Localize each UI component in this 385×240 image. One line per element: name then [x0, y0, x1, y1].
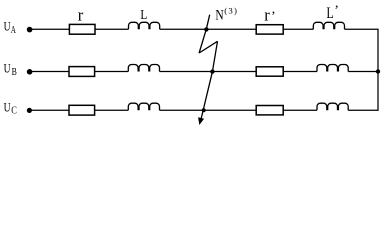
svg-text:r: r [264, 5, 270, 24]
resistor r' (phase A) [256, 25, 283, 34]
label U_C [4, 100, 17, 116]
node fault dot phase B [210, 69, 214, 73]
wire C4 [283, 109, 317, 111]
resistor r' (phase B) [256, 67, 283, 76]
svg-text:r: r [78, 5, 84, 24]
wire B2 [95, 71, 129, 73]
resistor r (phase A) [69, 24, 95, 34]
inductor L' (phase C) [317, 103, 348, 110]
wire B1 [30, 71, 69, 73]
label U_B [4, 62, 17, 79]
wire B4 [283, 71, 317, 73]
node fault dot phase A [204, 27, 208, 31]
wire A2 [95, 28, 129, 30]
terminal dot U_A [27, 27, 33, 33]
resistor r (phase C) [69, 105, 95, 115]
svg-text:U: U [4, 100, 11, 114]
inductor L' (phase B) [317, 65, 348, 72]
inductor L' (phase A) [313, 22, 344, 29]
label U_A [4, 19, 17, 36]
svg-text:B: B [12, 67, 17, 78]
svg-text:U: U [4, 19, 11, 33]
svg-text:L: L [140, 8, 147, 23]
terminal dot U_B [27, 69, 33, 75]
wire C1 [29, 109, 69, 111]
junction dot right bus [376, 69, 380, 73]
wire A5 [345, 28, 379, 30]
svg-text:’: ’ [271, 9, 276, 24]
terminal dot U_C [27, 108, 32, 113]
fault bolt stroke 3 [201, 41, 218, 120]
svg-text:N: N [215, 8, 223, 24]
wire C5 [348, 109, 378, 111]
wire A4 [283, 28, 313, 30]
inductor L (phase A) [128, 22, 159, 29]
svg-text:’: ’ [334, 4, 339, 19]
svg-text:U: U [4, 62, 11, 76]
wire A3 [160, 28, 257, 30]
fault arrowhead [198, 117, 204, 125]
label N(3) [215, 6, 237, 24]
svg-text:(3): (3) [224, 6, 237, 16]
wire right bus [377, 29, 379, 110]
svg-text:A: A [11, 25, 17, 36]
inductor L (phase C) [128, 103, 159, 110]
inductor L (phase B) [128, 65, 159, 72]
wire B3 [160, 71, 257, 73]
resistor r' (phase C) [256, 106, 283, 115]
svg-text:L: L [326, 5, 333, 22]
wire B5 [348, 71, 378, 73]
node fault dot phase C [202, 108, 206, 112]
resistor r (phase B) [69, 67, 95, 77]
wire A1 [30, 28, 70, 30]
fault bolt stroke 2 [199, 41, 217, 53]
svg-text:C: C [11, 106, 17, 117]
wire C3 [160, 109, 257, 111]
fault bolt stroke 1 [199, 15, 210, 53]
wire C2 [95, 109, 129, 111]
